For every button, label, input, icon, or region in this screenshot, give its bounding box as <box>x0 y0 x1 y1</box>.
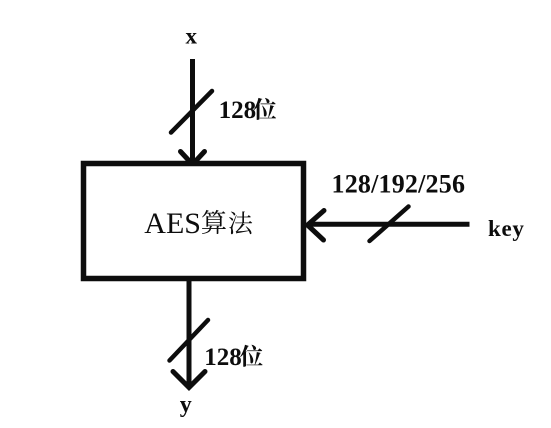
svg-text:AES: AES <box>144 207 201 240</box>
svg-text:x: x <box>186 24 198 49</box>
svg-text:128: 128 <box>219 97 257 124</box>
bus slash key <box>370 207 409 242</box>
block U1 AES rectangle <box>84 164 304 279</box>
arrowhead output y <box>173 372 205 388</box>
wire key input (horizontal) <box>308 222 470 227</box>
wire output y (vertical) <box>187 281 192 385</box>
bus slash output y <box>170 320 209 361</box>
svg-text:128/192/256: 128/192/256 <box>332 170 466 199</box>
bus slash input x <box>171 91 212 133</box>
svg-text:128: 128 <box>204 344 242 371</box>
block U1 label AES suanfa <box>144 207 252 240</box>
wire input x (vertical) <box>190 59 195 161</box>
arrowhead input x <box>181 152 205 165</box>
svg-text:y: y <box>180 392 192 418</box>
svg-text:key: key <box>488 216 525 241</box>
label 128-bit input <box>219 97 277 124</box>
arrowhead key input <box>308 211 325 241</box>
label 128-bit output <box>204 344 262 371</box>
